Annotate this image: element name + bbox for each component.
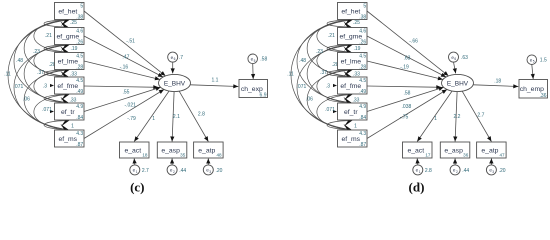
svg-text:ef_tr: ef_tr [344, 109, 358, 116]
svg-text:.48: .48 [299, 58, 306, 64]
covariance arc ef_gme-ef_lme [327, 45, 351, 52]
covariance arc ef_gme-ef_tr [24, 45, 68, 103]
svg-text:.11: .11 [4, 72, 11, 78]
svg-text:e_act: e_act [407, 147, 424, 154]
error term circle below e_asp [450, 165, 460, 175]
svg-text:.49: .49 [76, 89, 83, 95]
covariance arc ef_fme-ef_tr [44, 95, 68, 103]
covariance arrowheads between ef_het and ef_gme [61, 20, 70, 27]
observed variable e_act [403, 142, 433, 158]
error term circle below e_asp [167, 165, 177, 175]
observed variable ef_gme [55, 28, 85, 46]
svg-text:2.2: 2.2 [454, 114, 461, 120]
error term circle below e_atp [203, 165, 213, 175]
covariance arc ef_tr-ef_ms [327, 121, 351, 130]
arrow E_BHV -> ch_emp [474, 84, 519, 88]
svg-text:.38: .38 [359, 14, 366, 20]
svg-text:(d): (d) [409, 179, 425, 194]
covariance arc ef_tr-ef_ms [44, 121, 68, 130]
covariance arrowheads between ef_tr and ef_ms [61, 120, 70, 127]
error term circle below e_act [413, 165, 423, 175]
path E_BHV -> e_atp [179, 91, 208, 141]
svg-text:1.5: 1.5 [540, 57, 547, 63]
svg-text:ef_lme: ef_lme [341, 58, 362, 65]
svg-text:3: 3 [209, 170, 211, 174]
svg-text:.48: .48 [16, 58, 23, 64]
svg-text:-.51: -.51 [126, 39, 135, 45]
svg-text:.7: .7 [179, 55, 183, 61]
svg-text:.071: .071 [14, 84, 24, 90]
covariance arc ef_gme-ef_ms [297, 45, 351, 130]
svg-text:1: 1 [71, 123, 74, 129]
svg-text:5: 5 [363, 4, 366, 10]
svg-text:.071: .071 [42, 107, 52, 113]
svg-text:5: 5 [80, 4, 83, 10]
path E_BHV -> e_atp [462, 91, 491, 141]
svg-text:.58: .58 [260, 57, 267, 63]
svg-text:.44: .44 [179, 168, 186, 174]
svg-text:ef_tr: ef_tr [61, 109, 75, 116]
covariance arc ef_het-ef_tr [297, 20, 351, 103]
covariance arc ef_het-ef_tr [14, 20, 68, 103]
svg-text:2.8: 2.8 [198, 112, 205, 118]
covariance arc ef_fme-ef_tr [327, 95, 351, 103]
path E_BHV -> e_asp [453, 92, 457, 142]
svg-text:.26: .26 [359, 39, 366, 45]
svg-text:.26: .26 [76, 39, 83, 45]
covariance arc ef_lme-ef_ms [307, 70, 351, 130]
svg-text:.20: .20 [216, 168, 223, 174]
covariance arrowheads between ef_tr and ef_ms [344, 120, 353, 127]
path ef_tr -> E_BHV [84, 87, 161, 112]
covariance arc ef_het-ef_gme [327, 20, 351, 27]
svg-text:1: 1 [354, 123, 357, 129]
path E_BHV -> e_act [134, 91, 169, 141]
path ef_het -> E_BHV [367, 11, 449, 76]
path ef_tr -> E_BHV [367, 87, 444, 112]
covariance arc ef_gme-ef_fme [317, 45, 351, 77]
svg-text:.63: .63 [404, 55, 411, 61]
path E_BHV -> e_asp [170, 92, 174, 142]
svg-text:-.79: -.79 [127, 116, 136, 122]
arrow error circle -> e_atp [489, 159, 493, 165]
covariance arc ef_het-ef_ms [291, 20, 351, 130]
covariance arc ef_lme-ef_ms [24, 70, 68, 130]
svg-text:4.3: 4.3 [359, 131, 366, 137]
svg-text:ef_lme: ef_lme [58, 58, 79, 65]
covariance arrowhead at ef_fme left edge [333, 84, 337, 87]
observed variable ch_emp [519, 80, 548, 99]
svg-text:2.8: 2.8 [425, 168, 432, 174]
svg-text:-.66: -.66 [409, 39, 418, 45]
observed variable ef_het [338, 3, 368, 21]
svg-text:E_BHV: E_BHV [447, 80, 469, 87]
svg-text:ef_het: ef_het [58, 8, 77, 15]
svg-text:.3: .3 [326, 83, 330, 89]
svg-text:.071: .071 [297, 84, 307, 90]
arrow error circle -> e_atp [206, 159, 210, 165]
svg-text:2.7: 2.7 [477, 112, 484, 118]
svg-text:6.9: 6.9 [260, 92, 267, 98]
arrow error circle -> E_BHV [171, 62, 175, 73]
svg-text:6: 6 [454, 57, 456, 61]
svg-text:2: 2 [456, 170, 458, 174]
latent variable E_BHV (ellipse) [159, 74, 191, 91]
svg-text:1: 1 [419, 170, 421, 174]
arrow error circle -> e_asp [170, 159, 174, 165]
error term circle below e_atp [486, 165, 496, 175]
observed variable ef_lme [338, 53, 368, 71]
svg-text:.19: .19 [71, 46, 78, 52]
path ef_ms -> E_BHV [84, 90, 164, 139]
path ef_het -> E_BHV [84, 11, 166, 76]
svg-text:4.6: 4.6 [359, 29, 366, 35]
svg-text:e_atp: e_atp [481, 147, 498, 154]
observed variable ef_tr [55, 103, 85, 121]
svg-text:4.5: 4.5 [359, 78, 366, 84]
svg-text:1.1: 1.1 [212, 78, 219, 84]
svg-text:35: 35 [180, 153, 186, 158]
covariance arc ef_lme-ef_fme [327, 70, 351, 77]
svg-text:6: 6 [174, 57, 176, 61]
svg-text:.87: .87 [76, 142, 83, 148]
svg-text:e_atp: e_atp [198, 147, 215, 154]
path ef_ms -> E_BHV [367, 90, 447, 139]
svg-text:.071: .071 [325, 107, 335, 113]
svg-text:4.5: 4.5 [76, 54, 83, 60]
svg-text:1: 1 [136, 170, 138, 174]
svg-text:.36: .36 [540, 93, 547, 99]
svg-text:-.16: -.16 [120, 65, 129, 71]
svg-text:4.3: 4.3 [76, 131, 83, 137]
svg-text:.47: .47 [122, 55, 129, 61]
latent variable E_BHV (ellipse) [442, 74, 474, 91]
covariance arrowheads between ef_lme and ef_fme [61, 70, 70, 77]
svg-text:18: 18 [142, 153, 148, 158]
svg-text:.55: .55 [123, 89, 130, 95]
svg-text:1: 1 [434, 116, 437, 122]
svg-text:48: 48 [216, 153, 222, 158]
svg-text:.49: .49 [359, 89, 366, 95]
covariance arc ef_gme-ef_lme [44, 45, 68, 52]
svg-text:47: 47 [499, 153, 505, 158]
covariance arrowheads between ef_het and ef_gme [344, 20, 353, 27]
observed variable e_atp [194, 142, 224, 158]
svg-text:.23: .23 [316, 49, 323, 55]
observed variable ef_ms [55, 130, 85, 148]
arrow error circle -> ch_exp [251, 64, 255, 79]
svg-text:4.9: 4.9 [76, 104, 83, 110]
covariance arrowhead at ef_tr left edge [333, 110, 337, 113]
arrow error circle -> e_asp [453, 159, 457, 165]
observed variable ef_lme [55, 53, 85, 71]
svg-text:.19: .19 [354, 46, 361, 52]
svg-text:.21: .21 [328, 33, 335, 39]
svg-text:.25: .25 [353, 20, 360, 26]
svg-text:.06: .06 [23, 97, 30, 103]
observed variable e_asp [157, 142, 187, 158]
svg-text:4.6: 4.6 [76, 29, 83, 35]
svg-text:3: 3 [492, 170, 494, 174]
covariance arc ef_gme-ef_fme [34, 45, 68, 77]
svg-text:4.5: 4.5 [359, 54, 366, 60]
path ef_fme -> E_BHV [367, 85, 441, 89]
observed variable ef_fme [338, 77, 368, 95]
svg-text:.038: .038 [402, 104, 412, 110]
path ef_gme -> E_BHV [367, 36, 446, 77]
svg-text:1: 1 [152, 116, 155, 122]
svg-text:.3: .3 [43, 83, 47, 89]
covariance arc ef_lme-ef_tr [34, 70, 68, 103]
svg-text:-.19: -.19 [400, 65, 409, 71]
covariance arc ef_lme-ef_fme [44, 70, 68, 77]
svg-text:.06: .06 [306, 97, 313, 103]
covariance arrowheads between ef_gme and ef_lme [61, 45, 70, 52]
observed variable ef_gme [338, 28, 368, 46]
svg-text:.25: .25 [70, 20, 77, 26]
path ef_gme -> E_BHV [84, 36, 163, 77]
arrow error circle -> E_BHV [453, 62, 457, 73]
svg-text:.84: .84 [359, 115, 366, 121]
error term circle below e_act [130, 165, 140, 175]
covariance arc ef_het-ef_lme [317, 20, 351, 52]
error term circle above E_BHV [168, 52, 178, 62]
observed variable e_atp [477, 142, 507, 158]
observed variable ef_ms [338, 130, 368, 148]
error term circle above E_BHV [449, 52, 459, 62]
svg-text:.38: .38 [76, 14, 83, 20]
covariance arc ef_fme-ef_ms [317, 95, 351, 130]
svg-text:.23: .23 [33, 49, 40, 55]
svg-text:e_asp: e_asp [161, 147, 180, 154]
svg-text:5: 5 [254, 59, 256, 63]
covariance arrowhead at ef_tr left edge [50, 110, 54, 113]
svg-text:2: 2 [173, 170, 175, 174]
svg-text:17: 17 [425, 153, 431, 158]
svg-text:e_act: e_act [124, 147, 141, 154]
path ef_lme -> E_BHV [367, 61, 443, 80]
svg-text:4.5: 4.5 [76, 78, 83, 84]
svg-text:ef_ms: ef_ms [59, 136, 78, 143]
svg-text:.11: .11 [287, 72, 294, 78]
svg-text:.20: .20 [499, 168, 506, 174]
svg-text:.21: .21 [45, 33, 52, 39]
svg-text:2.1: 2.1 [173, 114, 180, 120]
covariance arc ef_gme-ef_tr [307, 45, 351, 103]
arrow E_BHV -> ch_exp [191, 84, 239, 88]
svg-text:.28: .28 [359, 64, 366, 70]
svg-text:ef_het: ef_het [341, 8, 360, 15]
covariance arrowheads between ef_fme and ef_tr [61, 94, 70, 101]
svg-text:.84: .84 [76, 115, 83, 121]
svg-text:(c): (c) [130, 179, 144, 194]
observed variable ef_het [55, 3, 85, 21]
error term circle above ch_emp [527, 55, 537, 65]
covariance arrowheads between ef_gme and ef_lme [344, 45, 353, 52]
arrow error circle -> e_act [133, 159, 137, 165]
covariance arrowheads between ef_fme and ef_tr [344, 94, 353, 101]
covariance arc ef_lme-ef_tr [317, 70, 351, 103]
covariance arc ef_het-ef_lme [34, 20, 68, 52]
covariance arc ef_gme-ef_ms [14, 45, 68, 130]
covariance arc ef_het-ef_fme [24, 20, 68, 77]
path E_BHV -> e_act [417, 91, 452, 141]
svg-text:5: 5 [533, 60, 535, 64]
observed variable e_act [120, 142, 150, 158]
covariance arc ef_het-ef_ms [8, 20, 68, 130]
svg-text:-.75: -.75 [400, 114, 409, 120]
observed variable e_asp [440, 142, 470, 158]
arrow error circle -> ch_emp [531, 65, 535, 80]
covariance arrowheads between ef_lme and ef_fme [344, 70, 353, 77]
svg-text:.58: .58 [404, 90, 411, 96]
observed variable ef_fme [55, 77, 85, 95]
svg-text:2.7: 2.7 [142, 168, 149, 174]
covariance arc ef_het-ef_fme [307, 20, 351, 77]
arrow error circle -> e_act [416, 159, 420, 165]
covariance arc ef_fme-ef_ms [34, 95, 68, 130]
svg-text:E_BHV: E_BHV [164, 80, 186, 87]
svg-text:.37: .37 [320, 70, 327, 76]
covariance arrowhead at ef_fme left edge [50, 84, 54, 87]
svg-text:.28: .28 [76, 64, 83, 70]
svg-text:.63: .63 [461, 55, 468, 61]
svg-text:36: 36 [463, 153, 469, 158]
observed variable ef_tr [338, 103, 368, 121]
error term circle above ch_exp [248, 54, 258, 64]
path ef_fme -> E_BHV [84, 85, 158, 89]
svg-text:e_asp: e_asp [444, 147, 463, 154]
svg-text:.87: .87 [359, 142, 366, 148]
svg-text:4.9: 4.9 [359, 104, 366, 110]
svg-text:.18: .18 [494, 79, 501, 85]
svg-text:ef_ms: ef_ms [342, 136, 361, 143]
observed variable ch_exp [239, 80, 268, 98]
svg-text:.44: .44 [462, 168, 469, 174]
covariance arc ef_het-ef_gme [44, 20, 68, 27]
path ef_lme -> E_BHV [84, 61, 160, 80]
svg-text:.37: .37 [37, 70, 44, 76]
